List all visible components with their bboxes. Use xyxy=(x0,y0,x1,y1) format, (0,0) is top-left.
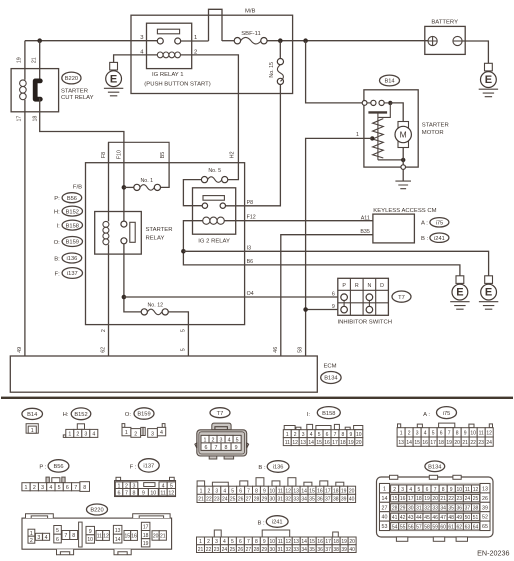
svg-text:1: 1 xyxy=(200,488,203,494)
svg-text:40: 40 xyxy=(349,547,355,553)
node terminal1 on solenoid xyxy=(370,136,374,140)
svg-text:9: 9 xyxy=(235,445,238,451)
node junction O4 xyxy=(122,295,127,300)
svg-text:36: 36 xyxy=(317,497,323,503)
svg-text:ECM: ECM xyxy=(324,364,337,370)
solenoid plunger T bar xyxy=(368,111,387,113)
svg-text:i136: i136 xyxy=(67,256,78,262)
svg-text:B:: B: xyxy=(54,256,60,262)
svg-text:16: 16 xyxy=(317,539,323,545)
svg-text:1: 1 xyxy=(286,432,289,438)
svg-text:18: 18 xyxy=(333,539,339,545)
svg-text:46: 46 xyxy=(273,347,279,353)
connector view T7 xyxy=(195,408,249,459)
svg-text:2: 2 xyxy=(76,432,79,438)
svg-text:H2: H2 xyxy=(230,151,236,158)
svg-text:24: 24 xyxy=(465,496,471,502)
svg-text:6: 6 xyxy=(239,539,242,545)
wire IG relay pin4 to ground E xyxy=(114,55,158,63)
svg-text:MOTOR: MOTOR xyxy=(422,130,444,136)
wire contact node to solenoid top xyxy=(378,103,390,118)
svg-text:25: 25 xyxy=(473,496,479,502)
svg-text:53: 53 xyxy=(382,524,388,530)
connector view H B152 xyxy=(63,408,98,438)
svg-text:9: 9 xyxy=(263,488,266,494)
wire bridge to SBF-11 xyxy=(222,40,234,42)
svg-text:9: 9 xyxy=(450,487,453,493)
IG relay 1 contact bar xyxy=(157,29,179,34)
wire starter relay contact down to O4 and fuse No.12 xyxy=(124,244,141,312)
svg-text:44: 44 xyxy=(416,515,422,521)
svg-text:30: 30 xyxy=(270,547,276,553)
svg-text:IG RELAY 1: IG RELAY 1 xyxy=(152,72,184,78)
svg-text:P:: P: xyxy=(54,196,60,202)
svg-text:B159: B159 xyxy=(137,412,150,418)
svg-text:BATTERY: BATTERY xyxy=(431,20,458,26)
svg-text:3: 3 xyxy=(302,432,305,438)
svg-text:16: 16 xyxy=(131,534,137,540)
svg-text:F:: F: xyxy=(55,271,61,277)
svg-text:7: 7 xyxy=(334,432,337,438)
separator line xyxy=(1,397,513,399)
svg-text:F/B: F/B xyxy=(73,184,82,190)
svg-text:1: 1 xyxy=(356,132,359,138)
svg-text:STARTER: STARTER xyxy=(422,123,449,129)
svg-text:M: M xyxy=(400,130,407,140)
svg-text:B220: B220 xyxy=(65,76,78,82)
svg-text:23: 23 xyxy=(457,496,463,502)
svg-text:5: 5 xyxy=(56,528,59,534)
svg-text:17: 17 xyxy=(332,440,338,446)
svg-text:36: 36 xyxy=(317,547,323,553)
node junction I3 xyxy=(181,249,186,254)
svg-text:5: 5 xyxy=(180,329,186,332)
svg-text:EN-20236: EN-20236 xyxy=(477,549,509,558)
svg-text:O:: O: xyxy=(54,240,61,246)
svg-text:3: 3 xyxy=(37,535,40,541)
svg-text:1: 1 xyxy=(194,35,197,41)
svg-text:B56: B56 xyxy=(67,196,77,202)
svg-text:E: E xyxy=(485,74,492,86)
svg-text:10: 10 xyxy=(270,488,276,494)
svg-text:64: 64 xyxy=(473,524,479,530)
svg-text:14: 14 xyxy=(301,488,307,494)
svg-text:10: 10 xyxy=(457,487,463,493)
svg-text:B14: B14 xyxy=(27,412,37,418)
svg-text:P :: P : xyxy=(39,464,46,470)
svg-text:6: 6 xyxy=(56,537,59,543)
svg-text:5: 5 xyxy=(432,431,435,437)
svg-text:P8: P8 xyxy=(247,200,254,206)
node contact to motor xyxy=(388,101,392,105)
svg-text:14: 14 xyxy=(406,440,412,446)
svg-text:30: 30 xyxy=(270,497,276,503)
svg-text:18: 18 xyxy=(438,440,444,446)
svg-text:14: 14 xyxy=(308,440,314,446)
F/B connector ellipse list xyxy=(54,184,83,278)
svg-text:14: 14 xyxy=(301,539,307,545)
svg-text:2: 2 xyxy=(393,487,396,493)
svg-text:20: 20 xyxy=(349,488,355,494)
wire 9 line from terminal1 node to inhibitor xyxy=(306,309,338,311)
svg-text:3: 3 xyxy=(84,432,87,438)
svg-text:8: 8 xyxy=(456,431,459,437)
wire battery feed to starter contact xyxy=(306,41,363,103)
svg-text:11: 11 xyxy=(465,487,470,493)
connector view O B159 xyxy=(122,408,166,438)
svg-text:33: 33 xyxy=(432,506,438,512)
svg-text:9: 9 xyxy=(263,539,266,545)
svg-text:F8: F8 xyxy=(101,152,107,158)
svg-text:B14: B14 xyxy=(384,79,394,85)
connector view B14 xyxy=(22,408,43,434)
svg-text:15: 15 xyxy=(316,440,322,446)
svg-text:8: 8 xyxy=(255,539,258,545)
fuse No. 15 xyxy=(269,41,284,85)
svg-text:B5: B5 xyxy=(160,152,166,159)
connector view B i136 xyxy=(197,461,356,503)
svg-text:15: 15 xyxy=(392,496,398,502)
svg-text:12: 12 xyxy=(292,440,298,446)
IG relay 1 contact terminals xyxy=(157,38,163,44)
starter cut relay coil to ECM pin 49 long wire xyxy=(24,100,26,356)
svg-text:B152: B152 xyxy=(74,412,87,418)
svg-text:65: 65 xyxy=(482,524,488,530)
terminal circle on box edge xyxy=(362,101,367,106)
svg-text:14: 14 xyxy=(382,496,388,502)
svg-text:8: 8 xyxy=(342,432,345,438)
svg-text:12: 12 xyxy=(168,491,174,497)
wire I3 line to right ground xyxy=(183,251,488,275)
motor M xyxy=(398,122,409,148)
svg-text:9: 9 xyxy=(142,491,145,497)
ground E battery right xyxy=(479,63,498,96)
connector view F i137 xyxy=(115,459,176,497)
svg-text:10: 10 xyxy=(87,537,93,543)
svg-text:1: 1 xyxy=(383,487,386,493)
svg-text:RELAY: RELAY xyxy=(146,235,165,241)
svg-text:49: 49 xyxy=(457,515,463,521)
svg-text:15: 15 xyxy=(125,534,131,540)
svg-text:27: 27 xyxy=(246,497,252,503)
starter relay coil bottom to ECM 62 xyxy=(108,245,110,357)
svg-text:4: 4 xyxy=(409,487,412,493)
svg-text:7: 7 xyxy=(434,487,437,493)
svg-text:I:: I: xyxy=(307,412,311,418)
svg-text:40: 40 xyxy=(382,515,388,521)
fuse No. 12 xyxy=(141,303,188,356)
svg-text:A :: A : xyxy=(423,412,430,418)
svg-text:6: 6 xyxy=(239,488,242,494)
svg-text:4: 4 xyxy=(45,535,48,541)
svg-text:i75: i75 xyxy=(443,411,451,417)
wire fuse No.5 left to IG2 relay contact xyxy=(183,180,202,206)
svg-text:INHIBITOR SWITCH: INHIBITOR SWITCH xyxy=(338,320,393,326)
starter motor B14 xyxy=(306,41,449,356)
svg-text:D: D xyxy=(380,283,384,289)
node junction F10 at fuse No.1 xyxy=(122,185,127,190)
wire IG relay pin2 to H2 down to fuse No.5 xyxy=(181,55,239,180)
svg-text:18: 18 xyxy=(340,440,346,446)
svg-text:35: 35 xyxy=(448,506,454,512)
svg-text:19: 19 xyxy=(424,496,430,502)
svg-text:1: 1 xyxy=(25,485,28,491)
starter cut relay pin18 wire to F10 feed xyxy=(40,98,124,221)
svg-text:59: 59 xyxy=(432,524,438,530)
svg-text:B56: B56 xyxy=(53,464,63,470)
svg-text:28: 28 xyxy=(254,497,260,503)
svg-text:I3: I3 xyxy=(247,245,251,251)
svg-text:3: 3 xyxy=(215,488,218,494)
svg-text:B220: B220 xyxy=(90,508,103,514)
connector view B134 ECM xyxy=(377,461,494,541)
svg-text:19: 19 xyxy=(341,539,347,545)
svg-text:3: 3 xyxy=(401,487,404,493)
svg-text:6: 6 xyxy=(326,432,329,438)
svg-text:22: 22 xyxy=(206,497,212,503)
svg-text:39: 39 xyxy=(341,497,347,503)
svg-text:No. 5: No. 5 xyxy=(208,168,221,174)
svg-text:IG 2 RELAY: IG 2 RELAY xyxy=(198,238,230,244)
F/B fuse box xyxy=(86,163,245,325)
svg-text:12: 12 xyxy=(473,487,479,493)
svg-text:17: 17 xyxy=(430,440,436,446)
svg-text:46: 46 xyxy=(432,515,438,521)
svg-text:2: 2 xyxy=(30,538,33,544)
svg-text:4: 4 xyxy=(424,431,427,437)
svg-text:4: 4 xyxy=(49,485,52,491)
starter relay contact terminals xyxy=(121,221,127,227)
svg-text:20: 20 xyxy=(454,440,460,446)
svg-text:B134: B134 xyxy=(428,465,441,471)
svg-text:7: 7 xyxy=(448,431,451,437)
svg-text:38: 38 xyxy=(333,547,339,553)
ground E right pair xyxy=(450,276,469,309)
svg-text:4: 4 xyxy=(223,539,226,545)
svg-text:31: 31 xyxy=(278,497,284,503)
svg-text:5: 5 xyxy=(58,485,61,491)
wire bridge hop at M/B top xyxy=(209,9,223,41)
IG relay 1 coil xyxy=(157,52,163,58)
svg-text:3: 3 xyxy=(416,431,419,437)
svg-text:N: N xyxy=(367,283,371,289)
wire SBF-11 to battery xyxy=(267,40,428,42)
svg-text:20: 20 xyxy=(356,440,362,446)
starter cut relay coil wire 19 xyxy=(24,41,26,80)
svg-text:B :: B : xyxy=(258,465,266,471)
svg-text:42: 42 xyxy=(400,515,406,521)
svg-text:62: 62 xyxy=(101,347,107,353)
wire main bus left segment to IG relay pin3 xyxy=(25,40,157,42)
ECM box xyxy=(10,347,341,392)
svg-text:58: 58 xyxy=(424,524,430,530)
svg-text:1: 1 xyxy=(125,430,128,436)
svg-text:5: 5 xyxy=(180,348,186,351)
svg-text:7: 7 xyxy=(64,533,67,539)
connector view B i241 xyxy=(197,516,357,553)
svg-text:47: 47 xyxy=(440,515,446,521)
svg-text:35: 35 xyxy=(309,497,315,503)
svg-text:No. 15: No. 15 xyxy=(269,62,275,78)
svg-text:37: 37 xyxy=(465,506,471,512)
svg-text:9: 9 xyxy=(464,431,467,437)
svg-text:55: 55 xyxy=(400,524,406,530)
svg-text:29: 29 xyxy=(262,497,268,503)
svg-text:(PUSH BUTTON START): (PUSH BUTTON START) xyxy=(144,82,210,88)
svg-text:13: 13 xyxy=(293,488,299,494)
svg-text:7: 7 xyxy=(74,485,77,491)
svg-text:20: 20 xyxy=(153,534,159,540)
svg-text:30: 30 xyxy=(408,506,414,512)
svg-text:8: 8 xyxy=(72,533,75,539)
wire solenoid bottom to motor bottom xyxy=(378,159,403,161)
svg-text:CUT RELAY: CUT RELAY xyxy=(61,95,94,101)
svg-text:13: 13 xyxy=(482,487,488,493)
svg-text:32: 32 xyxy=(424,506,430,512)
svg-text:29: 29 xyxy=(262,547,268,553)
svg-text:48: 48 xyxy=(448,515,454,521)
svg-text:12: 12 xyxy=(486,431,492,437)
svg-text:17: 17 xyxy=(325,488,331,494)
svg-text:T7: T7 xyxy=(398,295,405,301)
svg-text:10: 10 xyxy=(150,491,156,497)
svg-text:17: 17 xyxy=(143,525,149,531)
svg-text:37: 37 xyxy=(325,497,331,503)
svg-text:2: 2 xyxy=(294,432,297,438)
svg-text:7: 7 xyxy=(125,491,128,497)
wire fuse No.15 down to P8 line into IG2 relay contact xyxy=(226,85,281,206)
svg-text:8: 8 xyxy=(133,491,136,497)
svg-text:12: 12 xyxy=(285,488,291,494)
svg-text:10: 10 xyxy=(270,539,276,545)
svg-text:19: 19 xyxy=(341,488,347,494)
svg-text:16: 16 xyxy=(422,440,428,446)
svg-text:1: 1 xyxy=(199,539,202,545)
svg-text:21: 21 xyxy=(32,57,38,63)
svg-text:6: 6 xyxy=(66,485,69,491)
svg-text:5: 5 xyxy=(318,432,321,438)
svg-text:32: 32 xyxy=(285,497,291,503)
svg-text:32: 32 xyxy=(286,547,292,553)
svg-text:15: 15 xyxy=(309,488,315,494)
svg-text:21: 21 xyxy=(198,547,204,553)
svg-text:12: 12 xyxy=(286,539,292,545)
starter contact terminals xyxy=(371,100,376,105)
connector view P B56 xyxy=(22,460,90,492)
svg-text:11: 11 xyxy=(285,440,290,446)
wire F8 from tab to starter relay coil xyxy=(108,142,110,221)
svg-text:B158: B158 xyxy=(66,223,79,229)
relay U1 IG RELAY 1 box xyxy=(147,23,192,68)
svg-text:50: 50 xyxy=(465,515,471,521)
svg-text:2: 2 xyxy=(101,329,107,332)
F/B top connector tab xyxy=(109,142,170,162)
svg-text:O4: O4 xyxy=(247,291,254,297)
starter cut relay contact xyxy=(35,81,40,99)
svg-text:27: 27 xyxy=(382,505,388,511)
svg-text:21: 21 xyxy=(160,534,166,540)
svg-text:26: 26 xyxy=(238,497,244,503)
svg-text:10: 10 xyxy=(470,431,476,437)
svg-text:5: 5 xyxy=(231,488,234,494)
svg-text:60: 60 xyxy=(440,524,446,530)
svg-text:40: 40 xyxy=(349,497,355,503)
svg-text:B134: B134 xyxy=(324,376,337,382)
svg-text:3: 3 xyxy=(41,485,44,491)
svg-text:STARTER: STARTER xyxy=(146,227,173,233)
svg-text:17: 17 xyxy=(408,496,414,502)
svg-text:E: E xyxy=(485,287,492,299)
svg-text:F10: F10 xyxy=(117,150,123,159)
svg-text:41: 41 xyxy=(392,515,398,521)
svg-text:13: 13 xyxy=(398,440,404,446)
svg-text:18: 18 xyxy=(416,496,422,502)
svg-text:E: E xyxy=(456,287,463,299)
fuse No. 1 xyxy=(124,178,161,191)
svg-text:16: 16 xyxy=(317,488,323,494)
svg-text:No. 12: No. 12 xyxy=(147,303,163,309)
svg-text:13: 13 xyxy=(300,440,306,446)
svg-text:7: 7 xyxy=(247,539,250,545)
svg-text:20: 20 xyxy=(432,496,438,502)
svg-text:17: 17 xyxy=(17,116,23,122)
svg-text:31: 31 xyxy=(278,547,284,553)
svg-text:25: 25 xyxy=(230,497,236,503)
svg-text:6: 6 xyxy=(332,292,335,298)
svg-text:KEYLESS ACCESS CM: KEYLESS ACCESS CM xyxy=(373,208,436,214)
svg-text:A11: A11 xyxy=(361,216,370,222)
svg-text:62: 62 xyxy=(457,524,463,530)
svg-text:25: 25 xyxy=(230,547,236,553)
svg-text:T7: T7 xyxy=(217,411,224,417)
svg-text:R: R xyxy=(355,283,359,289)
svg-text:11: 11 xyxy=(278,488,283,494)
svg-text:23: 23 xyxy=(214,497,220,503)
wire battery minus to ground corner xyxy=(462,41,488,63)
relay K1 STARTER CUT RELAY xyxy=(11,41,124,356)
svg-text:2: 2 xyxy=(207,539,210,545)
starter relay contact bar xyxy=(130,222,135,242)
svg-text:12: 12 xyxy=(103,534,109,540)
svg-text:8: 8 xyxy=(83,485,86,491)
svg-text:A :: A : xyxy=(421,221,428,227)
svg-text:i137: i137 xyxy=(67,271,78,277)
fuse SBF-11 xyxy=(234,31,267,44)
svg-text:1: 1 xyxy=(400,431,403,437)
wire IG2 coil left to I3/B6 grounds xyxy=(183,221,460,276)
svg-text:B159: B159 xyxy=(66,240,79,246)
svg-text:24: 24 xyxy=(486,440,492,446)
svg-text:19: 19 xyxy=(446,440,452,446)
svg-text:8: 8 xyxy=(225,445,228,451)
svg-text:i241: i241 xyxy=(434,236,445,242)
svg-text:10: 10 xyxy=(356,432,362,438)
svg-text:B :: B : xyxy=(257,520,265,526)
svg-text:22: 22 xyxy=(470,440,476,446)
svg-text:9: 9 xyxy=(89,529,92,535)
svg-text:18: 18 xyxy=(333,488,339,494)
svg-text:26: 26 xyxy=(482,496,488,502)
svg-text:19: 19 xyxy=(143,541,149,547)
svg-text:F12: F12 xyxy=(247,215,256,221)
svg-text:i137: i137 xyxy=(143,464,154,470)
keyless access CM xyxy=(281,208,449,356)
svg-text:28: 28 xyxy=(392,506,398,512)
svg-text:24: 24 xyxy=(222,547,228,553)
svg-text:34: 34 xyxy=(440,506,446,512)
svg-text:35: 35 xyxy=(309,547,315,553)
svg-text:24: 24 xyxy=(222,497,228,503)
